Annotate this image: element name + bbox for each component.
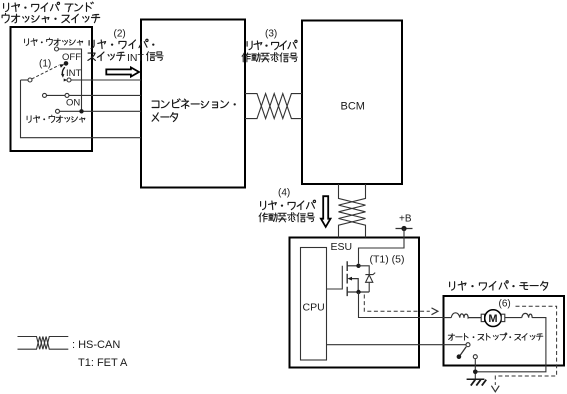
- ground junction dot: [473, 370, 478, 375]
- ESU box: [290, 238, 420, 368]
- svg-text:(1): (1): [39, 59, 51, 70]
- switch pole terminal: [28, 78, 32, 82]
- FET source leg: [347, 291, 369, 293]
- svg-text:(T1) (5): (T1) (5): [370, 254, 405, 266]
- rotary arc arrowhead: [61, 74, 65, 78]
- HS-CAN twisted pair BCM-ESU line B: [339, 184, 366, 238]
- rotary motion arc: [62, 67, 64, 74]
- dashed sense line T1 to motor: [364, 295, 430, 312]
- wire INT row left stub: [21, 79, 29, 81]
- svg-text:+B: +B: [399, 214, 412, 225]
- choke coil 1: [451, 313, 481, 318]
- terminal ON left: [43, 93, 47, 97]
- block arrow (2) right: [106, 67, 139, 76]
- auto-stop contact A: [466, 343, 470, 347]
- svg-text:(3): (3): [265, 29, 277, 40]
- label (3) line1: [247, 41, 252, 49]
- CPU box: [301, 248, 327, 361]
- auto-stop lever pivot dot: [457, 354, 462, 359]
- label rear washer (bottom): [27, 116, 31, 123]
- terminal washer top: [55, 47, 59, 51]
- svg-text:: HS-CAN: : HS-CAN: [72, 339, 120, 351]
- wire motor feed: [444, 317, 452, 319]
- wire contact B to ground junction: [474, 359, 476, 379]
- combination meter label: [152, 101, 159, 107]
- wire INT row to meter: [71, 79, 141, 81]
- rear wiper motor title: [450, 282, 455, 290]
- wire ground loop of switch: [21, 80, 142, 138]
- HS-CAN twisted pair meter-BCM line A: [245, 94, 302, 119]
- dashed arrowhead right: [432, 308, 438, 315]
- combination meter box: [141, 20, 245, 188]
- wire +B to FET drain: [359, 229, 405, 264]
- terminal washer bottom: [56, 109, 60, 113]
- block arrow (4) down: [321, 196, 331, 227]
- label (2) signal line2 kana part: [88, 53, 96, 60]
- svg-text:T1: FET A: T1: FET A: [78, 357, 128, 369]
- legend HS-CAN symbol line B: [18, 337, 69, 350]
- svg-text:OFF: OFF: [62, 52, 81, 63]
- title line2: [2, 14, 9, 23]
- label rear washer (top): [25, 39, 29, 46]
- dashed path (6): [495, 306, 556, 385]
- label (3) line2: [242, 53, 297, 62]
- title: rear wiper and washer switch label line1: [4, 3, 9, 11]
- terminal ON right: [65, 93, 69, 97]
- INT contact terminal: [67, 78, 71, 82]
- FET gate wire from CPU: [327, 266, 343, 289]
- svg-text:(6): (6): [499, 299, 511, 310]
- rear wiper and washer switch box: [11, 27, 93, 151]
- label (2) signal line1: [89, 40, 94, 48]
- svg-text:ON: ON: [66, 98, 80, 109]
- choke coil 2: [522, 313, 533, 318]
- FET drain leg: [347, 265, 358, 267]
- HS-CAN twisted pair meter-BCM line B: [245, 94, 302, 119]
- FET source junction dot: [356, 290, 360, 294]
- switch lever dashed: [32, 65, 59, 79]
- auto stop switch label: [448, 334, 454, 341]
- FET channel segments: [346, 261, 348, 296]
- label (4) line2: [259, 213, 314, 222]
- wire CPU to auto-stop switch: [327, 344, 467, 346]
- svg-text:ESU: ESU: [331, 241, 353, 253]
- wire ON row: [47, 94, 142, 96]
- motor M circle: [485, 310, 502, 327]
- svg-text:INT: INT: [127, 52, 145, 64]
- wire motor to choke2: [505, 317, 522, 319]
- auto-stop lever: [460, 347, 466, 356]
- label (4) line1: [261, 201, 266, 209]
- svg-text:(4): (4): [278, 188, 290, 199]
- auto-stop contact B: [473, 355, 477, 359]
- svg-text:(2): (2): [114, 29, 126, 40]
- wire washer bottom row: [60, 110, 142, 112]
- dashed arrowhead down: [491, 386, 499, 392]
- legend HS-CAN symbol line A: [18, 337, 69, 350]
- wire FET source to motor: [359, 292, 452, 318]
- zener cathode bar: [365, 273, 375, 275]
- OFF contact dot: [64, 61, 69, 66]
- HS-CAN twisted pair BCM-ESU line A: [339, 184, 366, 238]
- wire washer top terminal to junction: [59, 49, 82, 111]
- lever arrowhead: [59, 64, 64, 68]
- svg-text:CPU: CPU: [303, 302, 325, 314]
- chassis ground symbol: [467, 378, 485, 380]
- +B supply bar: [396, 228, 413, 230]
- svg-text:M: M: [488, 313, 497, 325]
- +B junction dot: [401, 226, 406, 231]
- BCM box: [302, 21, 402, 185]
- FET middle leg: [351, 279, 358, 292]
- wire choke2 to ground loop: [478, 318, 546, 372]
- zener diode branch wires: [359, 266, 370, 292]
- FET body arrow: [347, 277, 352, 281]
- motor left brush: [481, 314, 484, 321]
- svg-text:INT: INT: [66, 68, 82, 79]
- svg-text:BCM: BCM: [341, 101, 365, 113]
- FET drain junction dot: [356, 264, 360, 268]
- INT contact tick: [64, 79, 67, 82]
- motor right brush: [501, 314, 504, 321]
- rear wiper motor box: [444, 296, 565, 366]
- junction dot washer link: [79, 109, 83, 113]
- zener diode triangle: [366, 275, 373, 282]
